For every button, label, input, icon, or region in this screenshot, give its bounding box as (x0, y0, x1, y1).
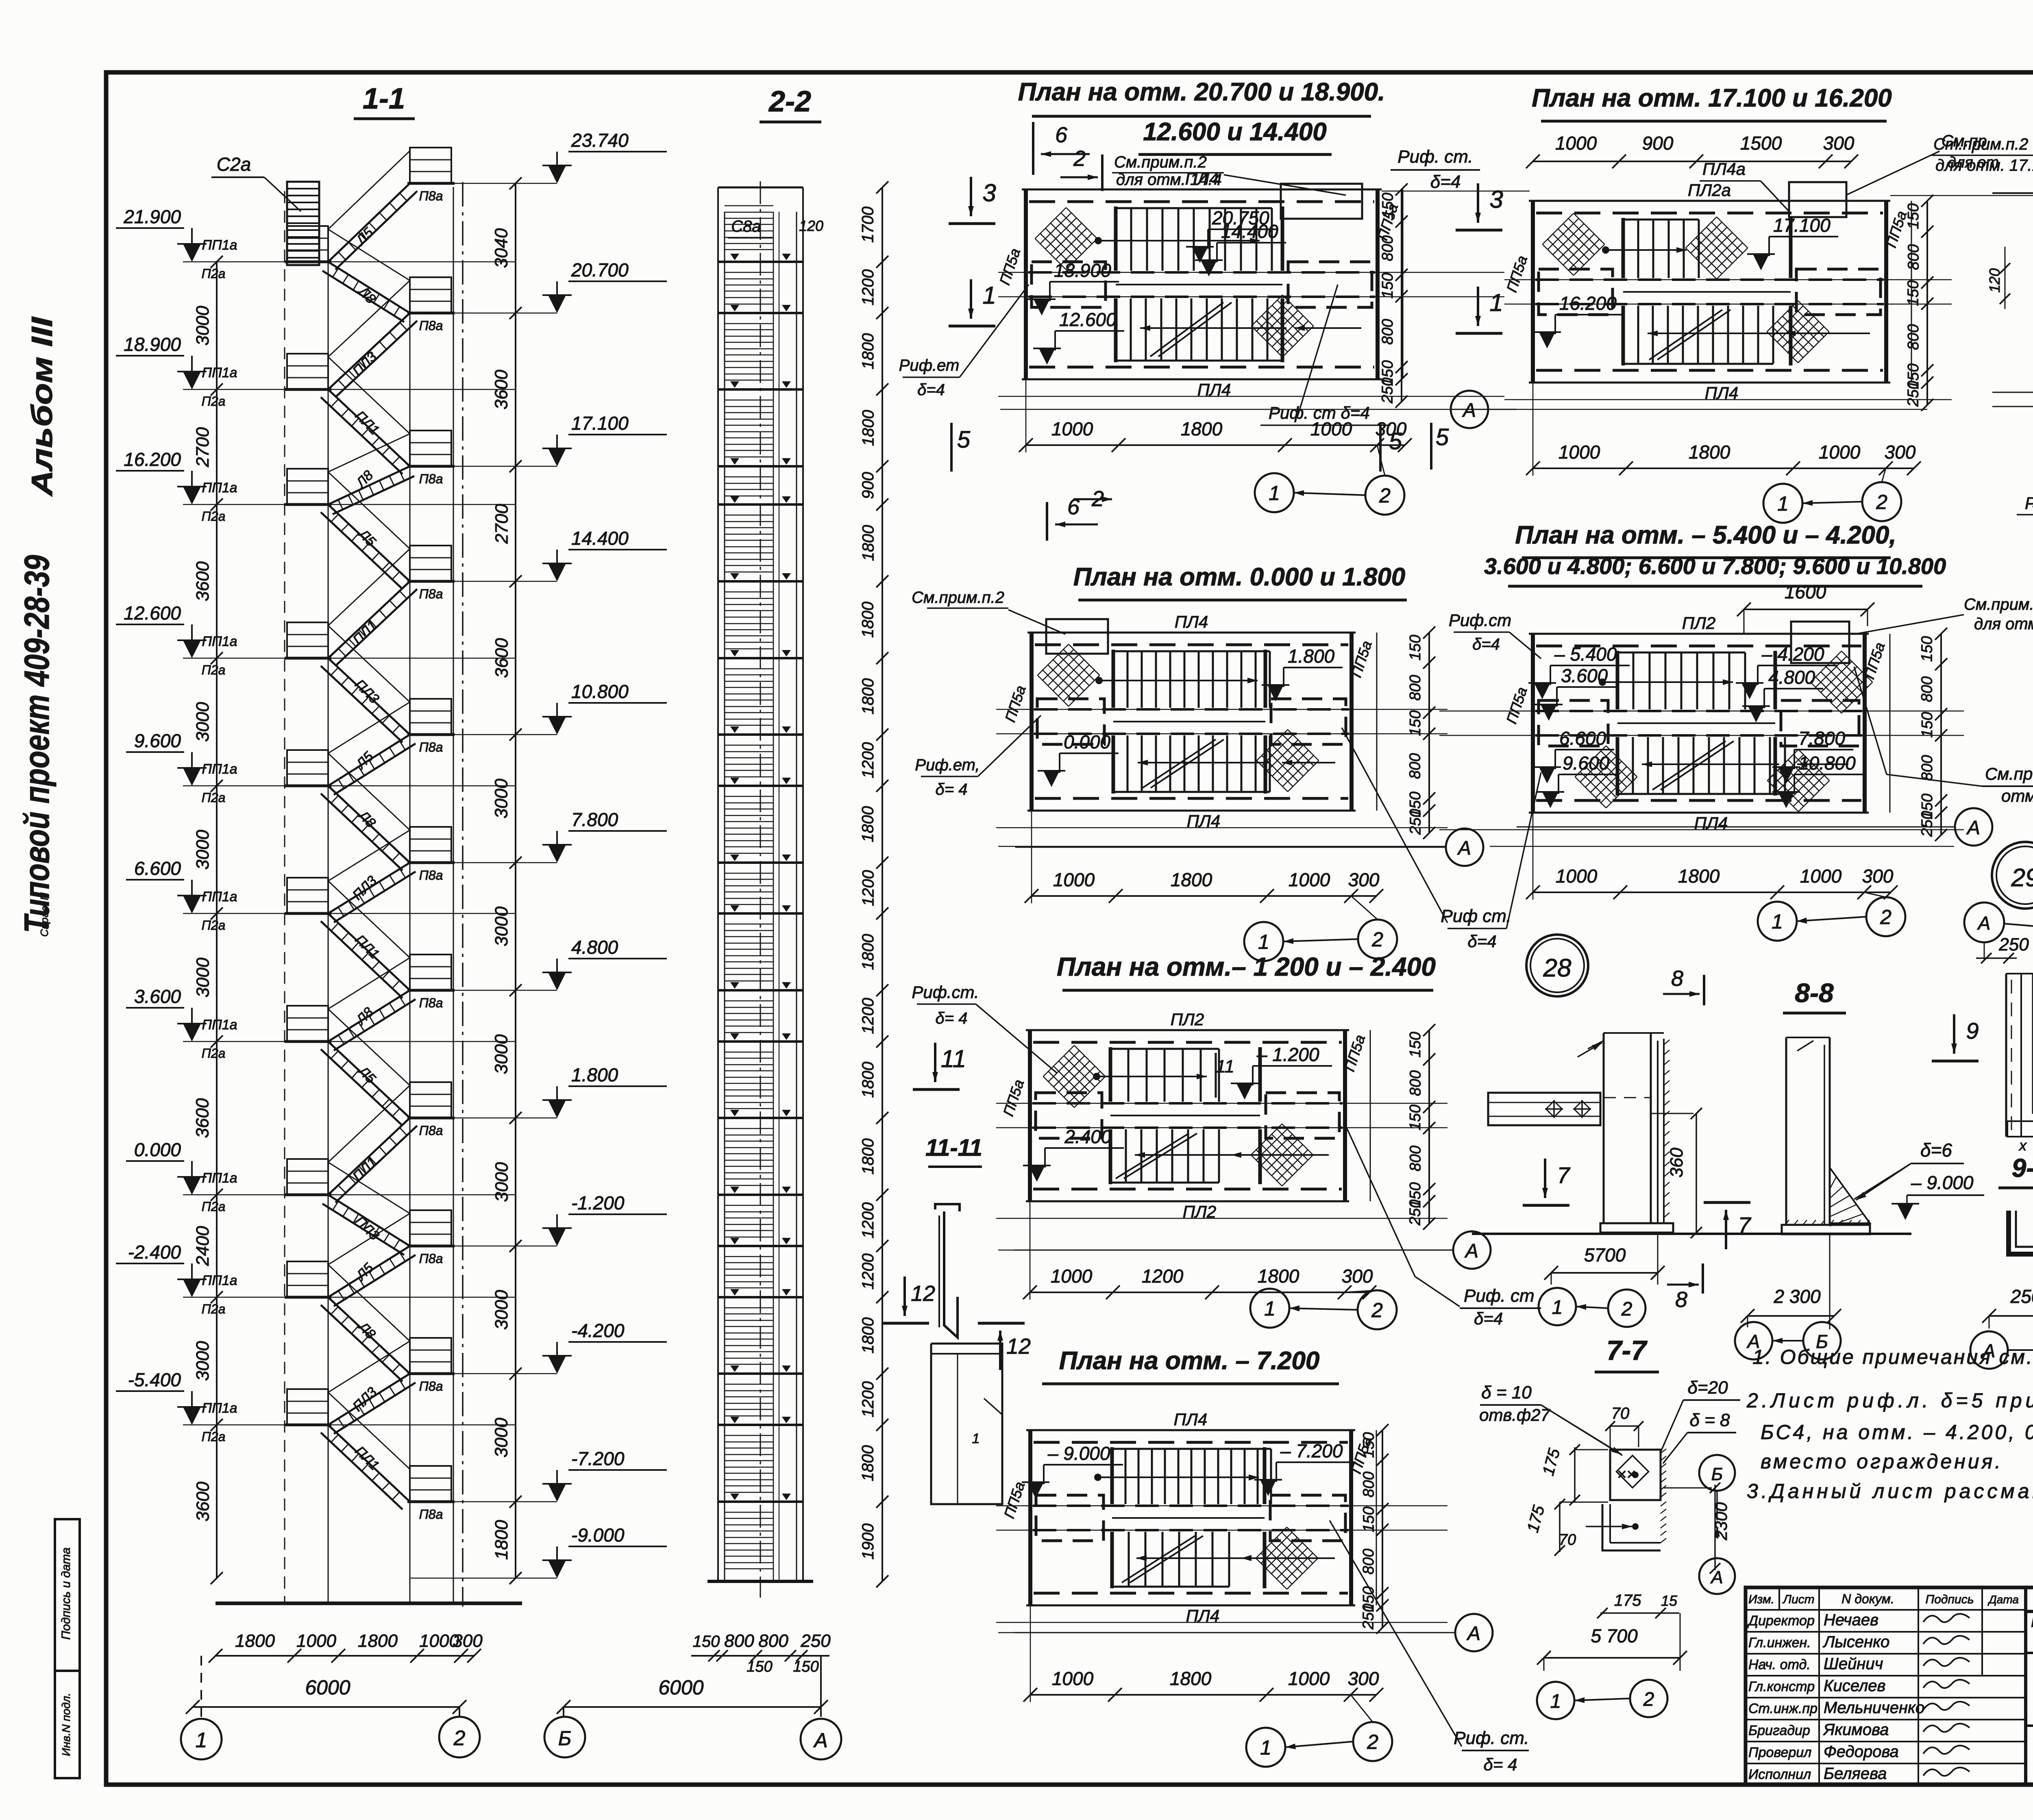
svg-text:1: 1 (1777, 492, 1789, 515)
svg-text:П2а: П2а (202, 266, 226, 281)
svg-text:1: 1 (1552, 1297, 1563, 1318)
svg-text:150: 150 (1905, 203, 1922, 229)
svg-text:ПП1а: ПП1а (202, 634, 237, 649)
svg-text:1200: 1200 (859, 1381, 877, 1418)
svg-text:3000: 3000 (193, 830, 213, 870)
svg-text:П2а: П2а (202, 663, 226, 677)
svg-text:12: 12 (911, 1281, 935, 1306)
svg-text:150: 150 (1407, 635, 1424, 661)
svg-text:См.прим. п.2 для: См.прим. п.2 для (1985, 764, 2033, 783)
svg-text:1000: 1000 (1288, 1668, 1330, 1689)
svg-text:1800: 1800 (859, 525, 877, 561)
svg-text:С2а: С2а (217, 154, 251, 175)
svg-text:1000: 1000 (1819, 441, 1861, 463)
svg-text:δ= 4: δ= 4 (1484, 1755, 1517, 1774)
svg-text:– 2.400: – 2.400 (1049, 1126, 1112, 1147)
svg-text:2: 2 (1379, 484, 1391, 507)
svg-text:δ = 10: δ = 10 (1481, 1383, 1532, 1403)
svg-text:3000: 3000 (193, 306, 213, 346)
svg-text:3.600: 3.600 (1561, 665, 1608, 686)
svg-text:10.800: 10.800 (571, 681, 629, 702)
svg-text:– 1.200: – 1.200 (1256, 1044, 1319, 1065)
svg-text:П8а: П8а (419, 472, 443, 486)
svg-text:δ=4: δ=4 (1474, 1309, 1503, 1328)
svg-text:6.600: 6.600 (1559, 728, 1606, 749)
svg-text:Бетоносмесительный цех автом: Бетоносмесительный цех автом. (2031, 1613, 2033, 1630)
svg-text:Риф. ст.: Риф. ст. (1454, 1728, 1529, 1748)
svg-text:Риф. ст.: Риф. ст. (1397, 147, 1473, 167)
svg-text:ПЛ4: ПЛ4 (1174, 1410, 1208, 1429)
svg-text:7-7: 7-7 (1606, 1335, 1648, 1366)
svg-text:ПП1а: ПП1а (202, 1017, 237, 1033)
svg-text:Риф ст.: Риф ст. (1441, 906, 1511, 926)
svg-text:12.600: 12.600 (124, 602, 181, 624)
svg-text:А: А (1710, 1568, 1723, 1587)
svg-text:2700: 2700 (193, 427, 213, 467)
svg-text:ПЛ2: ПЛ2 (1171, 1010, 1204, 1029)
svg-text:120: 120 (799, 217, 823, 234)
svg-text:П2а: П2а (202, 509, 226, 524)
svg-text:300: 300 (1862, 865, 1894, 887)
svg-text:1: 1 (1269, 482, 1280, 504)
svg-text:Бригадир: Бригадир (1748, 1723, 1810, 1738)
svg-text:Лист: Лист (1782, 1593, 1814, 1606)
svg-text:1800: 1800 (859, 410, 877, 446)
svg-text:См.прим.п.2: См.прим.п.2 (912, 589, 1004, 607)
svg-text:250: 250 (2010, 1286, 2033, 1307)
svg-text:Дата: Дата (1987, 1593, 2019, 1606)
svg-text:1: 1 (196, 1729, 207, 1752)
svg-text:1800: 1800 (859, 934, 877, 970)
svg-text:1500: 1500 (1740, 133, 1782, 154)
svg-text:Типовой проект 409-28-39: Типовой проект 409-28-39 (17, 555, 57, 933)
svg-text:П8а: П8а (419, 1123, 443, 1138)
svg-text:Альбом III: Альбом III (26, 316, 59, 497)
svg-text:3600: 3600 (193, 1481, 213, 1521)
svg-text:П2а: П2а (202, 1302, 226, 1316)
svg-text:1200: 1200 (859, 1253, 877, 1289)
svg-text:800: 800 (1407, 1146, 1424, 1171)
svg-text:δ= 4: δ= 4 (936, 1009, 968, 1027)
svg-text:300: 300 (1348, 1668, 1379, 1689)
svg-text:1800: 1800 (1258, 1266, 1299, 1287)
svg-text:2: 2 (1073, 146, 1086, 171)
svg-text:3600: 3600 (193, 1098, 213, 1138)
svg-text:1800: 1800 (358, 1631, 398, 1651)
svg-text:300: 300 (1348, 869, 1380, 890)
svg-text:Мельниченко: Мельниченко (1824, 1699, 1924, 1717)
svg-text:300: 300 (1342, 1266, 1373, 1287)
svg-text:800: 800 (1360, 1549, 1377, 1574)
svg-text:П8а: П8а (419, 996, 443, 1010)
svg-text:2-2: 2-2 (768, 85, 811, 118)
svg-text:10.800: 10.800 (1798, 752, 1856, 774)
svg-text:5 700: 5 700 (1591, 1625, 1638, 1646)
svg-text:300: 300 (1823, 133, 1855, 154)
svg-text:ПП1а: ПП1а (202, 237, 237, 253)
svg-text:вместо ограждения.: вместо ограждения. (1761, 1450, 2003, 1473)
svg-text:23.740: 23.740 (571, 130, 629, 151)
svg-text:1800: 1800 (859, 1062, 877, 1098)
svg-text:800: 800 (1407, 1070, 1424, 1096)
svg-text:2: 2 (1371, 928, 1383, 951)
svg-text:1800: 1800 (1171, 869, 1212, 890)
svg-text:А: А (813, 1729, 827, 1752)
svg-text:5: 5 (1389, 428, 1402, 454)
svg-text:800: 800 (1360, 1472, 1377, 1497)
svg-text:Риф.ет: Риф.ет (899, 357, 960, 374)
svg-text:250: 250 (1407, 809, 1424, 835)
svg-text:18.900: 18.900 (124, 334, 181, 355)
svg-text:5: 5 (1436, 424, 1449, 450)
svg-text:Риф ст δ=4: Риф ст δ=4 (2025, 494, 2033, 513)
svg-text:1000: 1000 (296, 1631, 336, 1651)
svg-text:150: 150 (1407, 710, 1424, 736)
svg-text:Гл.констр: Гл.констр (1748, 1679, 1815, 1694)
svg-text:Лысенко: Лысенко (1822, 1633, 1889, 1651)
svg-text:1700: 1700 (859, 207, 877, 243)
svg-text:План на отм. – 7.200: План на отм. – 7.200 (1059, 1347, 1320, 1375)
svg-text:С8а: С8а (731, 217, 761, 235)
svg-text:Б: Б (558, 1727, 572, 1750)
svg-text:5: 5 (957, 426, 971, 453)
svg-text:9-9: 9-9 (2012, 1153, 2033, 1183)
svg-text:2: 2 (1621, 1298, 1632, 1320)
svg-text:отв.ф27: отв.ф27 (1479, 1405, 1550, 1424)
svg-text:ПП1а: ПП1а (202, 889, 237, 905)
svg-text:Нач. отд.: Нач. отд. (1748, 1657, 1811, 1672)
svg-text:1800: 1800 (859, 1138, 877, 1174)
svg-text:8: 8 (1675, 1287, 1687, 1312)
svg-text:1800: 1800 (1678, 865, 1720, 887)
svg-text:ПП1а: ПП1а (202, 761, 237, 777)
svg-text:Риф.ст: Риф.ст (1449, 611, 1511, 630)
svg-text:3000: 3000 (492, 1418, 512, 1457)
svg-text:– 4.200: – 4.200 (1761, 644, 1824, 665)
svg-text:ПЛ2: ПЛ2 (1682, 613, 1716, 633)
svg-text:9.600: 9.600 (134, 730, 181, 751)
svg-text:300: 300 (1885, 441, 1916, 463)
svg-text:1800: 1800 (235, 1631, 275, 1651)
svg-text:δ=20: δ=20 (1687, 1378, 1728, 1398)
svg-text:800: 800 (1407, 675, 1424, 700)
svg-text:Директор: Директор (1747, 1613, 1815, 1629)
svg-text:1800: 1800 (1689, 441, 1730, 463)
svg-text:70: 70 (1559, 1531, 1576, 1548)
svg-text:Подпись: Подпись (1926, 1593, 1974, 1606)
svg-text:1: 1 (972, 1431, 980, 1446)
svg-text:П2а: П2а (202, 1199, 226, 1214)
svg-text:-1.200: -1.200 (571, 1192, 625, 1213)
svg-text:Гл.инжен.: Гл.инжен. (1748, 1635, 1811, 1650)
svg-text:См.прим.п.2: См.прим.п.2 (1114, 153, 1207, 171)
svg-text:2: 2 (1643, 1689, 1654, 1710)
svg-text:150: 150 (793, 1658, 818, 1675)
svg-text:δ=6: δ=6 (1920, 1139, 1952, 1161)
svg-text:150: 150 (693, 1633, 720, 1650)
svg-text:250: 250 (1919, 811, 1936, 837)
svg-text:δ=4: δ=4 (1467, 932, 1496, 951)
svg-text:П8а: П8а (419, 740, 443, 755)
svg-text:А: А (1457, 837, 1471, 859)
svg-text:1200: 1200 (859, 870, 877, 906)
svg-text:1000: 1000 (1555, 133, 1597, 154)
svg-text:150: 150 (1379, 193, 1396, 218)
svg-text:2.Лист риф.л. δ=5 приварить: 2.Лист риф.л. δ=5 приварить к площадке л… (1746, 1389, 2033, 1412)
svg-text:250: 250 (1998, 935, 2029, 955)
svg-text:1900: 1900 (859, 1523, 877, 1559)
svg-text:-4.200: -4.200 (571, 1320, 625, 1341)
svg-text:1.800: 1.800 (1288, 646, 1335, 667)
svg-text:3600: 3600 (492, 638, 512, 678)
svg-text:12.600 и 14.400: 12.600 и 14.400 (1143, 118, 1327, 146)
svg-text:Риф. ст δ=4: Риф. ст δ=4 (1269, 403, 1370, 422)
svg-text:6000: 6000 (305, 1676, 350, 1699)
svg-text:150: 150 (1407, 1105, 1424, 1130)
svg-text:1600: 1600 (1785, 581, 1826, 602)
svg-text:– 5.400: – 5.400 (1554, 644, 1617, 665)
svg-text:П8а: П8а (419, 189, 443, 203)
svg-text:– 9.000: – 9.000 (1047, 1443, 1110, 1464)
svg-text:1800: 1800 (492, 1520, 512, 1560)
svg-text:-7.200: -7.200 (571, 1448, 625, 1469)
svg-text:δ=4: δ=4 (1472, 635, 1500, 653)
svg-text:250: 250 (1379, 378, 1396, 404)
svg-text:6000: 6000 (658, 1676, 703, 1699)
svg-text:12: 12 (1006, 1334, 1031, 1359)
svg-text:П8а: П8а (419, 587, 443, 601)
svg-text:-5.400: -5.400 (128, 1369, 181, 1390)
svg-text:А: А (1966, 817, 1980, 839)
svg-text:9: 9 (1966, 1018, 1979, 1044)
svg-text:3040: 3040 (492, 228, 512, 268)
svg-text:Риф. ст: Риф. ст (1464, 1286, 1535, 1306)
svg-text:П2а: П2а (202, 394, 226, 409)
svg-text:800: 800 (1379, 235, 1396, 261)
svg-text:2300: 2300 (1711, 1502, 1730, 1541)
svg-text:150: 150 (1905, 281, 1922, 306)
svg-text:1800: 1800 (859, 1317, 877, 1353)
svg-text:5700: 5700 (1584, 1244, 1626, 1266)
svg-text:175: 175 (1614, 1592, 1641, 1609)
svg-text:– 7.200: – 7.200 (1280, 1440, 1343, 1461)
svg-text:9.600: 9.600 (1563, 752, 1610, 774)
svg-text:Б: Б (1711, 1464, 1723, 1484)
svg-text:300: 300 (453, 1631, 483, 1651)
svg-text:0.000: 0.000 (1064, 731, 1111, 752)
svg-text:0.000: 0.000 (134, 1139, 181, 1160)
svg-text:1200: 1200 (859, 269, 877, 305)
svg-text:1800: 1800 (859, 602, 877, 638)
svg-text:2700: 2700 (492, 504, 512, 544)
svg-text:Ст.прим.п.2: Ст.прим.п.2 (1933, 135, 2028, 153)
svg-text:11-11: 11-11 (925, 1135, 982, 1161)
svg-text:1. Общие примечания см. лис: 1. Общие примечания см. лист 52. (1752, 1346, 2033, 1368)
svg-text:1200: 1200 (859, 998, 877, 1034)
svg-text:150: 150 (1919, 636, 1936, 662)
svg-text:П2а: П2а (202, 1429, 226, 1444)
svg-text:ПЛ4: ПЛ4 (1175, 612, 1208, 631)
svg-text:3600: 3600 (193, 561, 213, 601)
svg-text:ПЛ4а: ПЛ4а (1702, 159, 1746, 178)
svg-text:250: 250 (1905, 381, 1922, 407)
svg-text:ПП1а: ПП1а (202, 1273, 237, 1288)
svg-text:А: А (1466, 1623, 1480, 1644)
svg-text:2 300: 2 300 (1773, 1286, 1821, 1307)
svg-text:1800: 1800 (859, 806, 877, 842)
svg-text:150: 150 (1360, 1432, 1377, 1458)
svg-text:Риф.ст.: Риф.ст. (912, 983, 979, 1002)
svg-text:1200: 1200 (1142, 1266, 1184, 1287)
svg-text:16.200: 16.200 (124, 449, 181, 470)
svg-text:360: 360 (1667, 1148, 1687, 1178)
svg-text:250: 250 (1407, 1200, 1424, 1226)
svg-text:– 9.000: – 9.000 (1911, 1172, 1974, 1193)
svg-text:1800: 1800 (859, 678, 877, 714)
svg-text:800: 800 (1905, 244, 1922, 270)
svg-text:Изм.: Изм. (1748, 1593, 1774, 1606)
svg-text:Исполнил: Исполнил (1748, 1767, 1811, 1782)
svg-text:ПП1а: ПП1а (202, 1400, 237, 1416)
svg-text:3.600: 3.600 (134, 986, 181, 1007)
svg-text:1: 1 (1772, 910, 1783, 933)
svg-text:1: 1 (1264, 1297, 1276, 1320)
svg-text:План на отм. 17.100 и 16.200: План на отм. 17.100 и 16.200 (1532, 84, 1892, 112)
svg-text:См.прим. п.2: См.прим. п.2 (1964, 596, 2033, 613)
svg-text:1-1: 1-1 (363, 83, 405, 115)
svg-text:План на отм. 20.700 и 18.900.: План на отм. 20.700 и 18.900. (1018, 78, 1385, 106)
svg-text:16.200: 16.200 (1559, 293, 1617, 314)
svg-text:δ=4: δ=4 (1430, 172, 1461, 192)
svg-text:2: 2 (1371, 1299, 1383, 1322)
svg-text:1: 1 (1489, 289, 1503, 316)
svg-text:N докум.: N докум. (1841, 1592, 1894, 1606)
svg-text:-9.000: -9.000 (571, 1524, 625, 1546)
svg-text:1000: 1000 (1051, 1266, 1093, 1287)
svg-text:Риф.ет,: Риф.ет, (915, 756, 979, 774)
svg-text:для отм. 14.4: для отм. 14.4 (1116, 171, 1222, 189)
svg-text:800: 800 (1905, 324, 1922, 350)
svg-text:1000: 1000 (1289, 869, 1330, 890)
svg-text:150: 150 (1407, 1032, 1424, 1057)
svg-text:План на отм. 0.000 и 1.800: План на отм. 0.000 и 1.800 (1073, 563, 1406, 591)
svg-text:800: 800 (1379, 319, 1396, 345)
svg-text:28: 28 (1543, 954, 1572, 982)
svg-text:Инв.N подл.: Инв.N подл. (60, 1693, 72, 1756)
svg-text:1: 1 (1550, 1691, 1561, 1712)
svg-text:2: 2 (1367, 1731, 1378, 1753)
svg-text:250: 250 (800, 1631, 831, 1651)
svg-text:1200: 1200 (859, 1202, 877, 1239)
svg-text:1: 1 (1260, 1736, 1271, 1759)
svg-text:План на отм.– 1 200 и – 2.400: План на отм.– 1 200 и – 2.400 (1057, 952, 1436, 981)
svg-text:4.800: 4.800 (571, 937, 618, 958)
svg-text:150: 150 (1360, 1507, 1377, 1532)
svg-text:-2.400: -2.400 (128, 1242, 181, 1263)
svg-text:14.400: 14.400 (571, 528, 629, 549)
svg-text:δ= 4: δ= 4 (936, 781, 968, 798)
svg-text:ПП1а: ПП1а (202, 365, 237, 381)
svg-text:Ст.инж.пр: Ст.инж.пр (1748, 1701, 1818, 1716)
svg-text:П2а: П2а (202, 1046, 226, 1061)
svg-text:П2а: П2а (202, 790, 226, 805)
svg-text:3000: 3000 (492, 1290, 512, 1330)
svg-text:150: 150 (1379, 273, 1396, 298)
svg-text:11: 11 (941, 1045, 966, 1072)
svg-text:δ = 8: δ = 8 (1689, 1410, 1730, 1430)
svg-text:План на отм. – 5.400 и – 4.20: План на отм. – 5.400 и – 4.200, (1515, 521, 1896, 549)
svg-text:18.900: 18.900 (1054, 260, 1111, 281)
svg-text:14.400: 14.400 (1221, 221, 1278, 242)
svg-text:4.800: 4.800 (1768, 667, 1815, 688)
svg-text:1000: 1000 (1558, 441, 1600, 463)
svg-text:3000: 3000 (193, 702, 213, 741)
svg-text:250: 250 (1360, 1604, 1377, 1630)
svg-text:3.600 и 4.800; 6.600 и 7.800;: 3.600 и 4.800; 6.600 и 7.800; 9.600 и 10… (1484, 553, 1946, 579)
svg-text:Киселев: Киселев (1824, 1677, 1885, 1695)
svg-text:1800: 1800 (1181, 418, 1223, 439)
svg-text:1: 1 (982, 282, 996, 309)
svg-text:8-8: 8-8 (1795, 978, 1834, 1008)
svg-text:29: 29 (2011, 864, 2033, 892)
svg-text:для отм.– 4,2; 4,8: для отм.– 4,2; 4,8 (1974, 615, 2033, 633)
svg-text:1000: 1000 (1556, 865, 1598, 887)
svg-text:21.900: 21.900 (123, 206, 181, 227)
svg-text:3000: 3000 (193, 1341, 213, 1381)
svg-text:1000: 1000 (1051, 418, 1093, 439)
svg-text:11: 11 (1216, 1057, 1234, 1076)
svg-text:3000: 3000 (492, 906, 512, 946)
svg-text:7: 7 (1738, 1212, 1751, 1238)
svg-text:1800: 1800 (1170, 1668, 1212, 1689)
svg-text:δ=4: δ=4 (917, 381, 945, 399)
svg-text:П8а: П8а (419, 318, 443, 333)
svg-text:2400: 2400 (193, 1226, 213, 1266)
svg-text:150: 150 (1919, 712, 1936, 737)
svg-text:3000: 3000 (492, 1162, 512, 1202)
svg-text:7.800: 7.800 (1798, 728, 1846, 749)
svg-text:7.800: 7.800 (571, 809, 618, 830)
svg-text:Шейнич: Шейнич (1824, 1655, 1883, 1673)
svg-text:Проверил: Проверил (1748, 1745, 1811, 1760)
svg-text:8: 8 (1671, 966, 1683, 991)
svg-text:1800: 1800 (859, 1445, 877, 1481)
svg-text:900: 900 (859, 472, 877, 499)
svg-text:х: х (2018, 1137, 2027, 1154)
svg-text:ПП1а: ПП1а (202, 480, 237, 496)
svg-text:6.600: 6.600 (134, 858, 181, 879)
svg-text:1000: 1000 (1800, 865, 1842, 887)
svg-text:А: А (1977, 913, 1991, 934)
svg-text:3.Данный лист рассматривать: 3.Данный лист рассматривать совместно с … (1747, 1480, 2033, 1503)
svg-text:12.600: 12.600 (1059, 309, 1117, 330)
svg-text:2: 2 (1880, 906, 1892, 928)
svg-text:отм. 4,8; 7,8; 10,8.: отм. 4,8; 7,8; 10,8. (2001, 786, 2033, 805)
svg-text:А: А (1464, 1240, 1478, 1262)
svg-text:1000: 1000 (1052, 1668, 1094, 1689)
svg-text:2: 2 (453, 1726, 466, 1750)
svg-text:Нечаев: Нечаев (1824, 1611, 1878, 1629)
svg-text:ПП1а: ПП1а (202, 1170, 237, 1186)
svg-text:3000: 3000 (492, 1034, 512, 1074)
svg-text:1000: 1000 (1053, 869, 1095, 890)
svg-text:1800: 1800 (859, 333, 877, 370)
svg-text:П8а: П8а (419, 868, 443, 883)
svg-text:Подпись и дата: Подпись и дата (59, 1548, 73, 1640)
svg-text:П8а: П8а (419, 1379, 443, 1394)
svg-text:6: 6 (1055, 123, 1068, 147)
svg-text:БС4, на отм. – 4.200, 0.00: БС4, на отм. – 4.200, 0.000, 4.800, 7.80… (1761, 1421, 2033, 1444)
